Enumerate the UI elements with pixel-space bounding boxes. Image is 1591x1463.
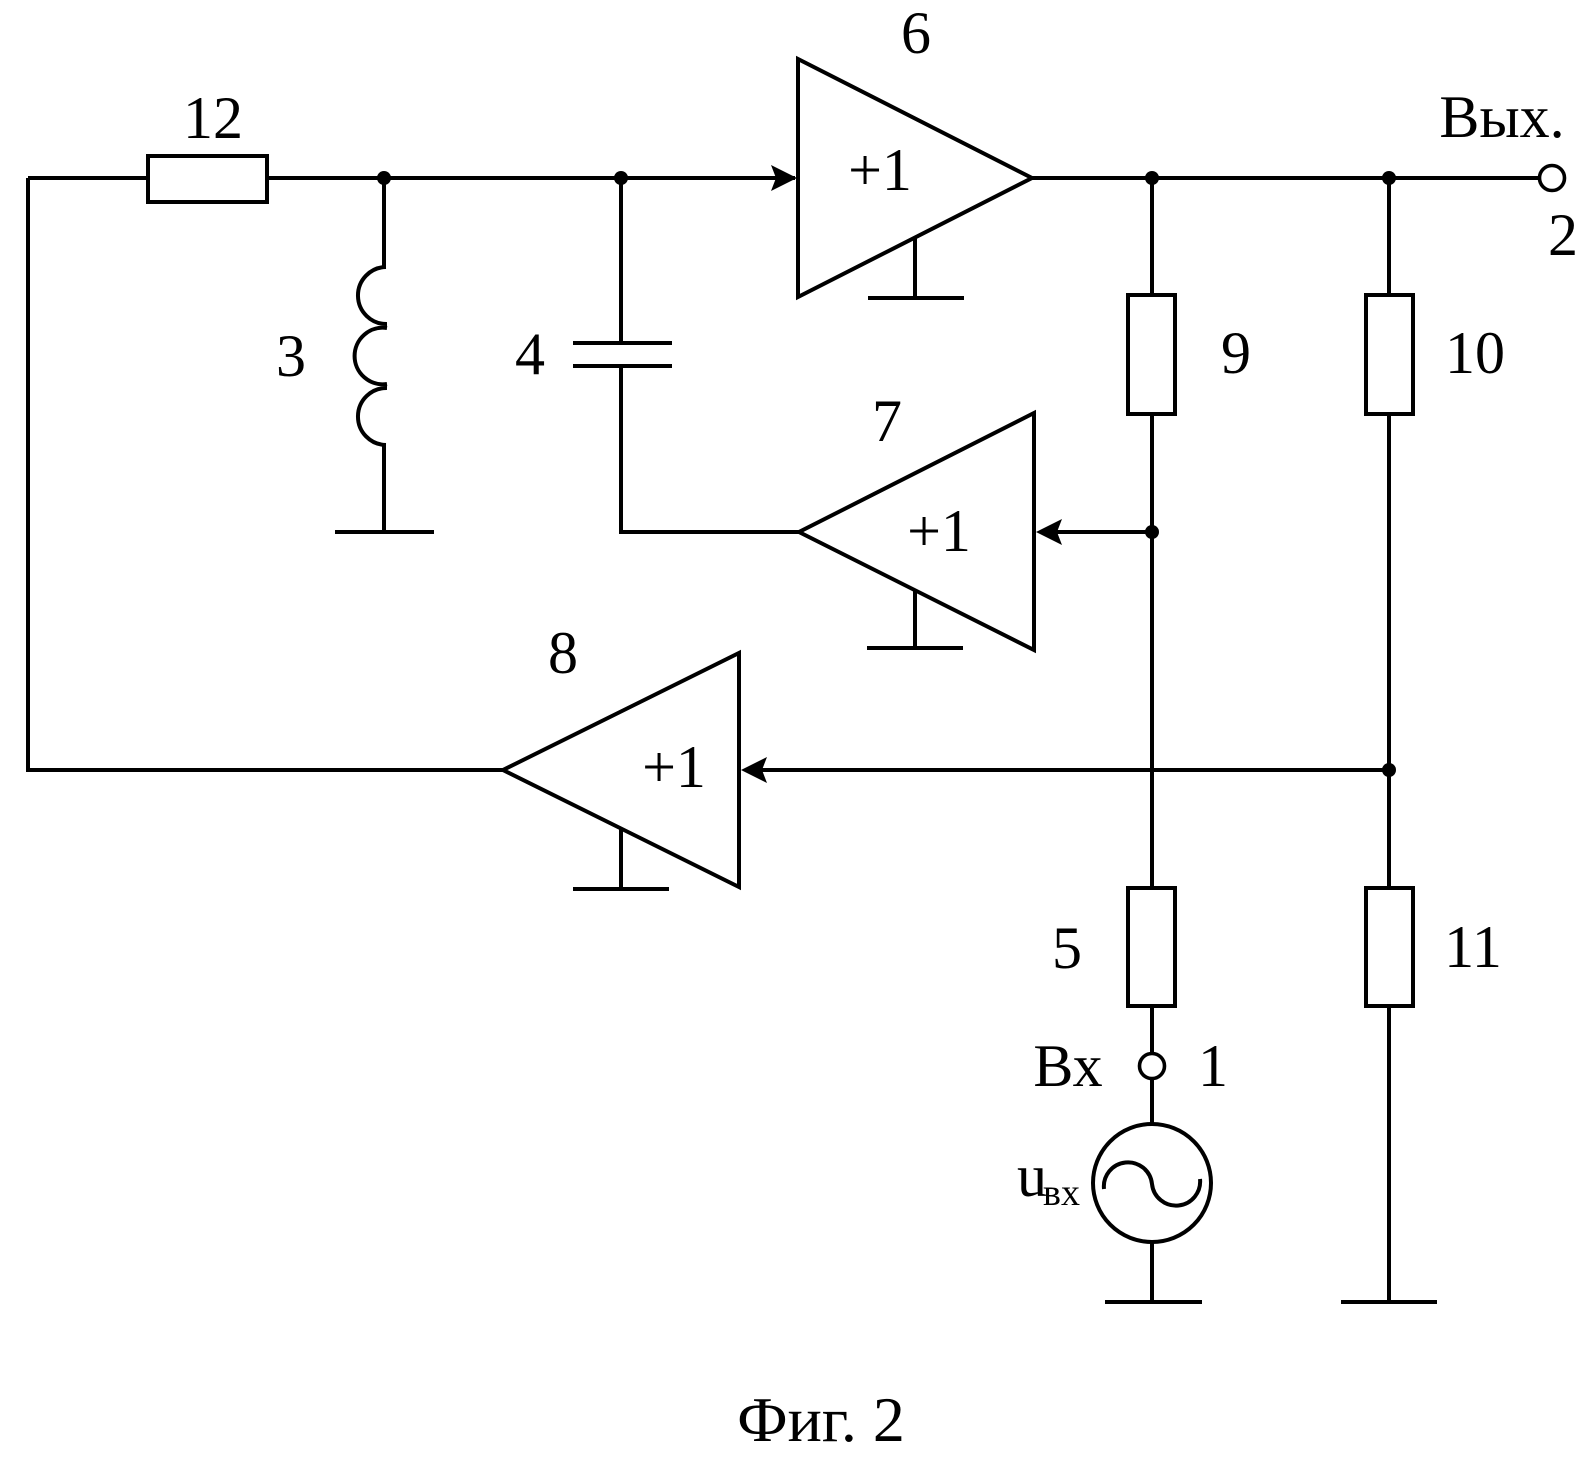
svg-text:2: 2 xyxy=(1548,202,1578,268)
svg-text:3: 3 xyxy=(276,323,306,389)
svg-text:1: 1 xyxy=(1198,1033,1228,1099)
svg-text:+1: +1 xyxy=(907,498,971,564)
svg-text:Вых.: Вых. xyxy=(1439,84,1564,150)
svg-text:5: 5 xyxy=(1052,915,1082,981)
svg-text:Фиг. 2: Фиг. 2 xyxy=(737,1384,905,1455)
svg-text:6: 6 xyxy=(901,0,931,66)
svg-text:вх: вх xyxy=(1043,1172,1080,1214)
svg-text:12: 12 xyxy=(183,85,243,151)
svg-text:10: 10 xyxy=(1445,320,1505,386)
svg-text:Вх: Вх xyxy=(1033,1033,1102,1099)
svg-text:+1: +1 xyxy=(642,734,706,800)
svg-text:+1: +1 xyxy=(848,137,912,203)
svg-text:8: 8 xyxy=(548,620,578,686)
svg-text:9: 9 xyxy=(1221,320,1251,386)
svg-text:4: 4 xyxy=(515,321,545,387)
svg-text:7: 7 xyxy=(872,388,902,454)
svg-text:11: 11 xyxy=(1444,914,1502,980)
